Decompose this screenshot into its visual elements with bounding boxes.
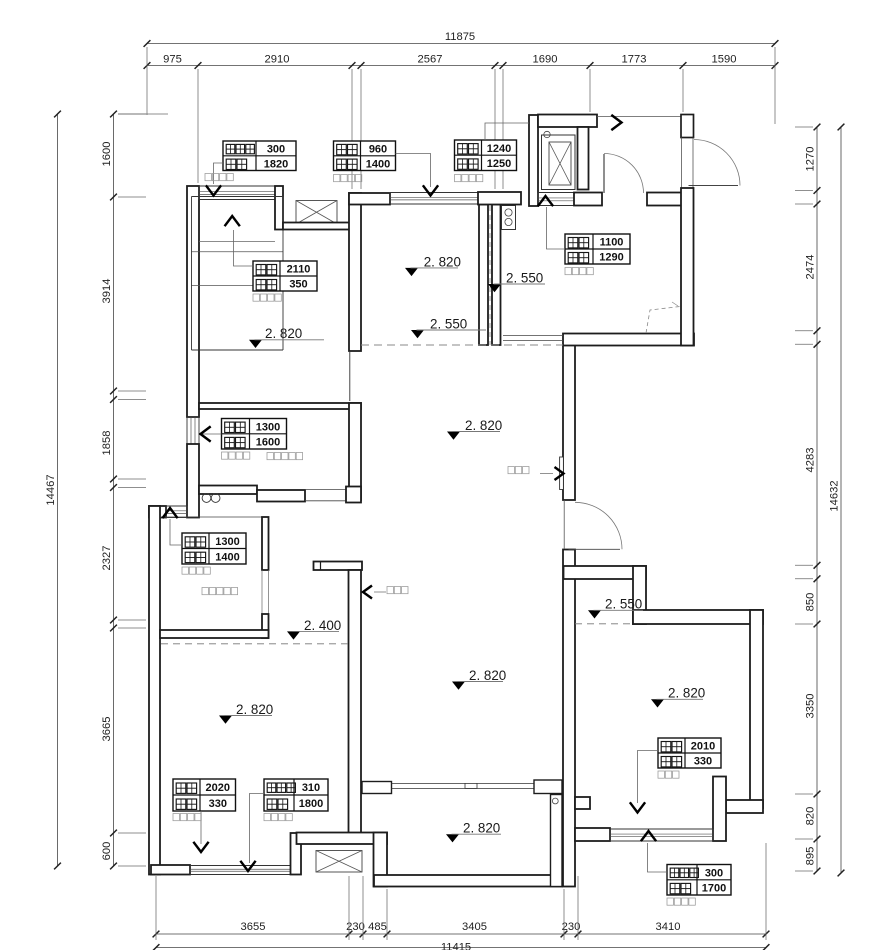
wall: bedroom bottom right corner bbox=[291, 833, 302, 875]
svg-text:2327: 2327 bbox=[101, 546, 113, 571]
svg-text:2. 400: 2. 400 bbox=[304, 618, 341, 633]
door leaf+arc: lobby entry door bbox=[604, 154, 644, 194]
level marker 2.820 living lower bbox=[452, 668, 506, 690]
label box 高度2020/离地330 bbox=[173, 779, 236, 811]
dim: left total 14467 bbox=[45, 111, 61, 870]
wall: entry column top bbox=[681, 115, 694, 138]
thin line: corridor edge bbox=[597, 116, 681, 118]
leader: box10 down bbox=[638, 751, 659, 804]
fixture with 2 circles NE bedroom bbox=[502, 206, 516, 230]
dim: top chain 975/2910/2567/1690/1773/1590 bbox=[144, 53, 779, 69]
arrow down SE bedroom bbox=[631, 803, 645, 812]
window band over niche bbox=[192, 197, 284, 351]
wall: SE bedroom right wall bbox=[750, 610, 763, 808]
svg-text:1858: 1858 bbox=[101, 431, 113, 456]
svg-text:2110: 2110 bbox=[287, 264, 311, 276]
svg-text:485: 485 bbox=[368, 921, 387, 933]
annotation 预留参数 under box5 bbox=[253, 294, 281, 301]
annotation 窗户参数 under box7 bbox=[182, 567, 210, 574]
wall: lobby bottom left bbox=[574, 193, 602, 206]
annotation 强电箱 bbox=[508, 467, 529, 474]
svg-text:975: 975 bbox=[163, 53, 182, 65]
leader: box11 up bbox=[648, 843, 668, 872]
wall: lobby top bar bbox=[538, 115, 597, 128]
svg-text:1400: 1400 bbox=[215, 552, 239, 564]
wall: bottom-left bedroom bottom left bbox=[151, 865, 190, 875]
wall: lobby left wall bbox=[529, 115, 538, 206]
sliding door tracks bbox=[392, 782, 535, 784]
svg-text:2. 820: 2. 820 bbox=[463, 821, 500, 836]
svg-text:1590: 1590 bbox=[712, 53, 737, 65]
svg-text:3665: 3665 bbox=[101, 717, 113, 742]
label box 距地1300/高度1600 bbox=[222, 419, 287, 450]
svg-text:1600: 1600 bbox=[101, 142, 113, 167]
svg-text:1773: 1773 bbox=[622, 53, 647, 65]
sliding door handle circle bbox=[552, 798, 558, 804]
svg-text:2474: 2474 bbox=[805, 255, 817, 280]
svg-text:2010: 2010 bbox=[691, 741, 715, 753]
door leaf+arc: living to SE bedroom bbox=[569, 502, 623, 549]
leader: box2 to dining window bbox=[396, 154, 431, 188]
wall: divider dining side bbox=[479, 205, 488, 346]
arrow up in top-left bedroom bbox=[225, 216, 239, 225]
annotation 窗户参数 under box4 bbox=[565, 268, 593, 275]
wall: SE bedroom step vertical bbox=[713, 777, 726, 842]
dashed: ceiling 2.400 zone bbox=[161, 643, 350, 645]
arrow down at dining window bbox=[424, 186, 438, 195]
level marker 2.400 storage hall bbox=[287, 618, 341, 640]
arrow left at kitchen window bbox=[201, 427, 210, 441]
dim: top total 11875 bbox=[144, 31, 779, 47]
leader: box4 to lobby window bbox=[547, 207, 566, 249]
leader: box9 down bbox=[250, 794, 265, 864]
wall: left exterior below window (kitchen) bbox=[187, 444, 199, 518]
level marker 2.820 living center bbox=[447, 418, 502, 440]
extension lines top bbox=[147, 47, 775, 189]
annotation 飘窗参数 under box8 bbox=[173, 814, 201, 821]
svg-text:230: 230 bbox=[562, 921, 581, 933]
svg-text:960: 960 bbox=[369, 144, 387, 156]
dim: left chain 1600/3914/1858/2327/3665/600 bbox=[101, 111, 117, 870]
wall: storage bottom bbox=[160, 630, 269, 638]
arrow down bottom-left bedroom a bbox=[194, 843, 208, 852]
wall: balcony bottom bbox=[374, 875, 562, 887]
label box 距飘窗300/高度1820 bbox=[223, 141, 296, 171]
wall: top-left bedroom bottom bbox=[199, 403, 361, 409]
svg-text:1700: 1700 bbox=[702, 883, 726, 895]
annotation 飘窗参数 under box10 bbox=[658, 771, 679, 778]
annotation 铝合金 storage bbox=[202, 588, 238, 595]
svg-text:2. 820: 2. 820 bbox=[424, 254, 461, 269]
svg-text:2. 820: 2. 820 bbox=[265, 326, 302, 341]
svg-text:310: 310 bbox=[302, 782, 320, 794]
hatch: flue box top-left bbox=[296, 201, 337, 225]
annotation 窗户参数 under box2 bbox=[334, 175, 362, 182]
annotation 窗户参数 under box3 bbox=[455, 175, 483, 182]
wall: balcony right panel bbox=[551, 795, 563, 887]
window 300/1700 SE bedroom bbox=[610, 829, 713, 841]
wall: divider bedroom side bbox=[492, 205, 501, 346]
label box 距地1300/高度1400 bbox=[182, 533, 246, 564]
level marker 2.550 hallway bbox=[488, 270, 545, 292]
dim: right chain 1270/2474/4283/850/3350/820/895 bbox=[805, 124, 821, 875]
svg-text:11415: 11415 bbox=[441, 942, 471, 950]
wall: SE corridor vertical bbox=[633, 566, 646, 624]
svg-text:3350: 3350 bbox=[805, 694, 817, 719]
sliding door left block bbox=[362, 782, 392, 794]
wall: top chunk kitchen/lobby bbox=[478, 192, 521, 205]
dashed line in divider bbox=[489, 206, 491, 345]
svg-text:2. 550: 2. 550 bbox=[506, 270, 543, 285]
svg-text:895: 895 bbox=[805, 847, 817, 866]
level marker 2.820 top-left bedroom bbox=[249, 326, 324, 348]
wall: stub right of top window bbox=[275, 186, 283, 230]
dashed: ceiling 2.550 zone SE bbox=[575, 623, 634, 625]
label box 高度2110/离地350 bbox=[253, 261, 317, 291]
svg-text:2910: 2910 bbox=[265, 53, 290, 65]
level marker 2.550 SE corridor bbox=[588, 597, 643, 619]
extension lines bottom bbox=[156, 843, 766, 940]
svg-text:4283: 4283 bbox=[805, 448, 817, 473]
svg-text:14632: 14632 bbox=[829, 480, 841, 511]
wall: lobby bottom right bbox=[647, 193, 682, 206]
annotation 窗户参数 under box1 bbox=[205, 174, 233, 181]
leader+arrow: reserved hole bbox=[374, 591, 386, 593]
svg-text:330: 330 bbox=[209, 798, 227, 810]
leader: box7 up bbox=[170, 519, 182, 545]
svg-text:11875: 11875 bbox=[445, 31, 475, 43]
wall: nook top wall bbox=[297, 833, 388, 845]
svg-text:300: 300 bbox=[267, 144, 285, 156]
svg-text:14467: 14467 bbox=[45, 474, 57, 505]
label box 距飘窗310/高度1800 bbox=[264, 779, 328, 811]
level marker 2.820 bottom-left bedroom bbox=[219, 702, 273, 724]
arrow left reserved hole bbox=[363, 586, 371, 598]
window 1100/1290 lobby-living bbox=[538, 193, 574, 206]
kitchen door opening lines bbox=[305, 489, 346, 491]
dashed: 2.550 ceiling line living bbox=[361, 344, 563, 346]
wall: living east wall lower (long) bbox=[563, 550, 575, 887]
level marker 2.820 dining bbox=[405, 254, 461, 276]
level marker 2.820 balcony bbox=[446, 821, 501, 843]
level marker 2.550 living upper bbox=[411, 316, 486, 338]
annotation 窗户参数 under box9 bbox=[264, 814, 292, 821]
entry door leaf+arc bbox=[689, 140, 741, 186]
wall: storage right lower bbox=[262, 614, 269, 638]
svg-text:2. 550: 2. 550 bbox=[430, 316, 467, 331]
wall: niche bottom bbox=[283, 223, 350, 230]
label box 距地960/高度1400 bbox=[334, 141, 396, 171]
wall: SE bedroom step bottom bbox=[726, 800, 763, 813]
window: top-left bedroom bay window 300x1820 bbox=[199, 186, 275, 200]
arrow down at top-left window bbox=[207, 186, 221, 195]
arrow down bottom-left bedroom b bbox=[241, 862, 255, 871]
wall: NE bedroom bottom bbox=[563, 334, 694, 346]
svg-text:1600: 1600 bbox=[256, 437, 280, 449]
storage door jambs bbox=[261, 570, 263, 614]
leader+arrow: elec box bbox=[540, 473, 553, 475]
wall: left exterior lower bbox=[149, 506, 160, 875]
svg-text:2567: 2567 bbox=[418, 53, 443, 65]
arrow up at storage window bbox=[163, 508, 177, 517]
svg-text:1250: 1250 bbox=[487, 158, 511, 170]
entry door jambs bbox=[681, 138, 683, 189]
annotation 台面下沿750 bbox=[267, 453, 303, 460]
door opening jamb line (top-left bedroom door) bbox=[349, 351, 351, 401]
wall: kitchen right wall bbox=[349, 403, 361, 500]
wall: SE bedroom stub bbox=[575, 797, 590, 809]
hatch: AC platform box bbox=[316, 851, 362, 873]
svg-text:2. 550: 2. 550 bbox=[605, 597, 642, 612]
annotation 预留洞 bbox=[387, 587, 408, 594]
svg-text:3405: 3405 bbox=[462, 921, 487, 933]
svg-text:1300: 1300 bbox=[256, 421, 280, 433]
level marker 2.820 SE bedroom bbox=[651, 686, 705, 708]
leader: box6 to left window bbox=[202, 433, 222, 435]
svg-text:3655: 3655 bbox=[241, 921, 266, 933]
thin line: storage top bbox=[160, 516, 262, 518]
sliding door right block bbox=[534, 780, 562, 794]
opening band: NE bedroom entry bbox=[503, 335, 563, 337]
arrow up at SE window bbox=[642, 831, 656, 840]
annotation 窗户参数 under box11 bbox=[667, 898, 695, 905]
wall: balcony left wall bbox=[374, 833, 388, 887]
svg-text:3410: 3410 bbox=[656, 921, 681, 933]
wall: NE bedroom right wall bbox=[681, 188, 694, 346]
annotation 窗户参数 under box6 bbox=[222, 452, 250, 459]
svg-text:300: 300 bbox=[705, 867, 723, 879]
elevator car with hatch bbox=[542, 131, 576, 189]
label box 距飘窗300/高度1700 bbox=[667, 865, 731, 896]
leader: box3 upward bbox=[485, 123, 529, 140]
svg-text:2020: 2020 bbox=[206, 782, 230, 794]
label box 高度2010/离地330 bbox=[658, 738, 721, 768]
window 1300x1600 in left wall bbox=[187, 417, 199, 444]
svg-text:1100: 1100 bbox=[600, 237, 624, 249]
wall: left exterior upper (top-left bedroom) bbox=[187, 186, 199, 417]
svg-text:330: 330 bbox=[694, 756, 712, 768]
arrow up at lobby window bbox=[539, 196, 553, 205]
arrow right at elec box bbox=[556, 468, 564, 480]
svg-text:1240: 1240 bbox=[487, 143, 511, 155]
thin line: bay sill top-left bedroom bbox=[199, 241, 275, 243]
kitchen sink circles bbox=[202, 494, 211, 503]
wall: bottom-left bedroom right wall bbox=[349, 570, 362, 834]
extension lines left bbox=[118, 114, 168, 866]
wall: SE corridor lower bbox=[633, 610, 763, 624]
window 310/2020 bottom-left bedroom bbox=[190, 866, 291, 875]
wall: kitchen bottom right part bbox=[257, 490, 305, 502]
svg-text:1690: 1690 bbox=[533, 53, 558, 65]
leader: box1 to top window bbox=[214, 163, 224, 184]
wall: hall band wall with pier bbox=[314, 562, 363, 571]
dim: right total 14632 bbox=[829, 124, 845, 877]
arrow right on corridor line bbox=[612, 116, 621, 130]
window 1300x1400 in step wall bbox=[166, 506, 187, 518]
svg-text:1400: 1400 bbox=[366, 158, 390, 170]
wall: SE corridor top bbox=[564, 566, 647, 579]
svg-text:2. 820: 2. 820 bbox=[465, 418, 502, 433]
wall: SE bedroom bottom left bbox=[575, 828, 610, 841]
svg-text:1300: 1300 bbox=[215, 536, 239, 548]
svg-text:820: 820 bbox=[805, 807, 817, 826]
dim: bottom total 11415 bbox=[153, 942, 770, 950]
leader: box5 up bbox=[234, 230, 254, 266]
svg-text:3914: 3914 bbox=[101, 279, 113, 304]
svg-text:1290: 1290 bbox=[599, 252, 623, 264]
wall: elevator shaft right bbox=[578, 127, 589, 190]
svg-text:1270: 1270 bbox=[805, 147, 817, 172]
svg-text:850: 850 bbox=[805, 593, 817, 612]
svg-text:600: 600 bbox=[101, 842, 113, 861]
dashed: closet corner NE bedroom bbox=[646, 307, 680, 334]
window 960/1400 dining top bbox=[390, 193, 478, 205]
dim: bottom chain 3655/230/485/3405/230/3410 bbox=[153, 921, 770, 937]
wall: top-left bedroom right wall bbox=[349, 193, 361, 351]
svg-text:2. 820: 2. 820 bbox=[469, 668, 506, 683]
svg-text:350: 350 bbox=[289, 279, 307, 291]
wall: dining top-left segment bbox=[349, 193, 390, 205]
wall: living east wall upper bbox=[563, 345, 575, 500]
svg-text:1820: 1820 bbox=[264, 158, 288, 170]
wall: kitchen bottom left part bbox=[199, 486, 257, 495]
label box 距地1100/高度1290 bbox=[565, 234, 630, 264]
wall: left step wall solid part bbox=[149, 506, 166, 518]
extension lines right bbox=[795, 127, 813, 871]
wall: storage right upper bbox=[262, 517, 269, 570]
door jamb: living-bedroom door bbox=[563, 500, 565, 549]
svg-text:2. 820: 2. 820 bbox=[668, 686, 705, 701]
svg-text:2. 820: 2. 820 bbox=[236, 702, 273, 717]
label box 距地1240/高度1250 bbox=[455, 140, 517, 171]
svg-text:1800: 1800 bbox=[299, 798, 323, 810]
wall: kitchen door right post bbox=[346, 487, 361, 503]
leader: box8 down bbox=[200, 811, 202, 844]
electrical box on wall bbox=[560, 457, 564, 490]
